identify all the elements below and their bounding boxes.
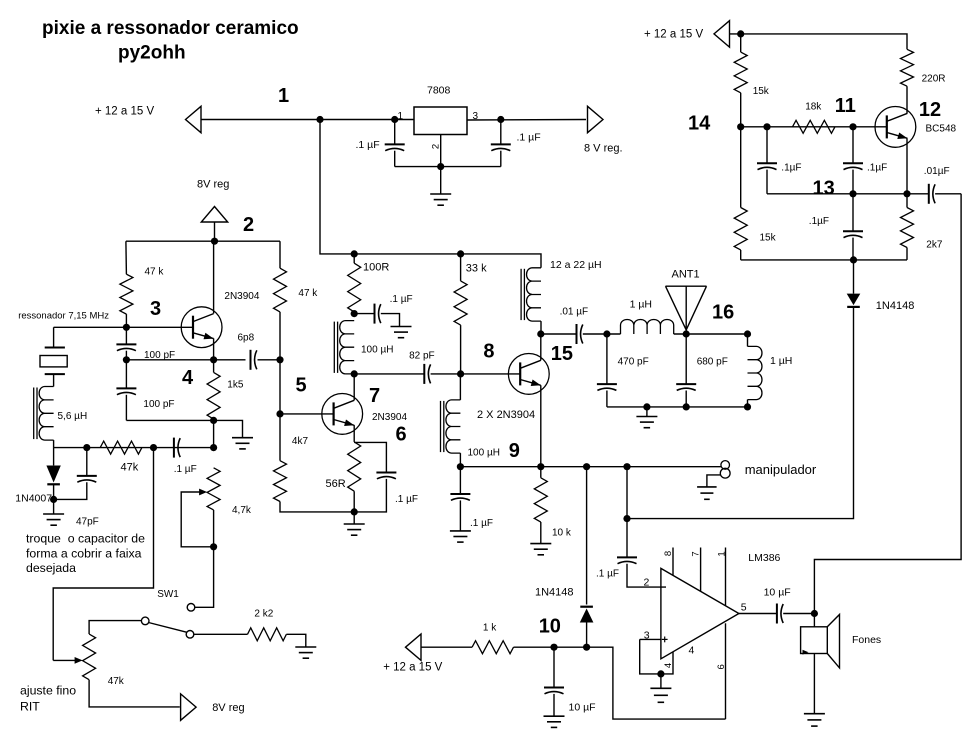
svg-text:1 k: 1 k	[483, 623, 497, 634]
junction 680pF gnd	[683, 403, 690, 410]
wire diode2 feed down	[586, 467, 588, 605]
svg-text:4: 4	[182, 367, 194, 389]
wire throw A to 4,7k	[195, 510, 214, 607]
junction node 14 / cap b	[849, 123, 856, 130]
svg-text:LM386: LM386	[748, 552, 780, 564]
ceramic resonator 7,15 MHz	[40, 348, 67, 375]
potentiometer 4,7k	[207, 468, 220, 510]
wire C-out top stem	[500, 120, 502, 145]
wire varactor node line	[54, 447, 214, 449]
junction node 13 / emitter	[903, 190, 910, 197]
svg-text:47 k: 47 k	[298, 288, 318, 299]
antenna ANT1	[666, 286, 707, 334]
wire osc signal line	[627, 307, 854, 519]
svg-text:100 µH: 100 µH	[468, 448, 500, 459]
svg-text:100 µH: 100 µH	[361, 345, 393, 356]
wire 12V to 1k	[421, 646, 472, 648]
svg-text:+ 12 a 15 V: + 12 a 15 V	[95, 106, 154, 118]
capacitor .1 uF (100R bypass)	[375, 304, 381, 324]
wire sidetone branch	[626, 467, 628, 519]
resistor 47 k (Q7 bias upper)	[274, 268, 287, 312]
svg-text:470 pF: 470 pF	[618, 357, 649, 368]
wire 4,7k wiper loop	[181, 492, 213, 547]
plus mark pin 3	[662, 638, 668, 640]
junction key / diode	[583, 463, 590, 470]
svg-text:BC548: BC548	[926, 124, 957, 135]
svg-text:1N4148: 1N4148	[535, 587, 574, 599]
ground (manipulador)	[697, 487, 717, 499]
capacitor 6p8	[251, 350, 257, 370]
wire Q3 collector up	[213, 241, 215, 313]
wire key bypass top stem	[459, 467, 461, 494]
svg-text:troque o capacitor de: troque o capacitor de	[26, 532, 145, 546]
wire osc2 bottom rail	[741, 259, 907, 261]
junction node 15	[537, 330, 544, 337]
capacitor .1 uF (audio in)	[617, 557, 637, 563]
wire 8V osc rail	[126, 240, 280, 242]
svg-text:ressonador 7,15 MHz: ressonador 7,15 MHz	[18, 311, 109, 322]
potentiometer 47k (RIT)	[83, 634, 96, 680]
wire C-in top stem	[394, 120, 396, 145]
wire shunt coil stubs	[747, 334, 749, 346]
diode 1N4007	[46, 466, 60, 485]
wire Q7 emitter down	[353, 425, 355, 442]
wire LM386 pin 7	[700, 548, 702, 592]
svg-text:5,6 µH: 5,6 µH	[58, 411, 88, 422]
op-amp U1 LM386 body	[661, 568, 739, 658]
wire speaker top stem	[813, 614, 815, 627]
capacitor .1uF (osc c)	[843, 231, 863, 237]
wire 15k-2 bottom stub	[740, 250, 742, 260]
svg-text:.1 µF: .1 µF	[517, 132, 541, 144]
wire cap-c top stem	[852, 194, 854, 232]
svg-text:8 V reg.: 8 V reg.	[584, 143, 623, 155]
svg-text:.1 µF: .1 µF	[174, 464, 197, 475]
wire 1N4007 anode stem	[53, 448, 55, 466]
svg-text:manipulador: manipulador	[745, 462, 817, 477]
transistor Q12 BC548	[875, 107, 916, 148]
wire Q12 emitter down	[906, 138, 908, 194]
svg-text:6p8: 6p8	[238, 333, 255, 344]
wire resonator top stem	[53, 327, 55, 347]
junction node 5 top	[276, 356, 283, 363]
wire 15k-2 top stub	[740, 127, 742, 208]
svg-text:7808: 7808	[427, 85, 451, 97]
svg-text:Fones: Fones	[852, 634, 881, 646]
wire 2k7 top stub	[906, 194, 908, 208]
svg-text:15k: 15k	[760, 233, 777, 244]
junction node 5 base	[276, 410, 283, 417]
svg-text:10 µF: 10 µF	[569, 702, 596, 714]
wire .01uF to filter	[583, 333, 621, 335]
wire 47pF bottom link	[54, 482, 87, 499]
wire 100pF-1 bottom stem	[125, 351, 127, 360]
svg-text:5: 5	[741, 602, 747, 614]
svg-text:2 k2: 2 k2	[254, 609, 273, 620]
wire 100pF-2 bottom stem	[125, 395, 127, 421]
wire bypass cap to ground	[381, 314, 400, 327]
wire 7808 ground stem	[440, 167, 442, 194]
junction node 1 (12V rail tap)	[316, 116, 323, 123]
svg-text:8V reg: 8V reg	[197, 179, 229, 191]
diode 1N4148 (osc)	[847, 294, 861, 307]
wire 12V osc rail	[729, 34, 907, 49]
svg-text:.01 µF: .01 µF	[560, 307, 589, 318]
wire 47k right top stub	[279, 241, 281, 268]
wire 10k top stub	[540, 467, 542, 478]
junction filter gnd mid	[643, 403, 650, 410]
capacitor .01uF (osc out)	[929, 184, 935, 204]
svg-text:12: 12	[919, 99, 941, 121]
wire keying line	[460, 466, 721, 468]
resistor 1 k	[472, 641, 513, 654]
svg-text:2: 2	[243, 214, 254, 236]
capacitor 10 uF (supply filter)	[544, 688, 564, 694]
junction key / sidetone	[623, 463, 630, 470]
supply flag 8V (osc)	[201, 207, 227, 223]
wire 470pF top stem	[606, 334, 608, 384]
inductor 5,6 uH	[34, 387, 54, 441]
svg-text:8: 8	[663, 551, 674, 556]
junction 10uF audio	[550, 644, 557, 651]
svg-text:1k5: 1k5	[227, 379, 244, 390]
svg-text:220R: 220R	[922, 74, 946, 85]
svg-text:1 µH: 1 µH	[630, 299, 652, 311]
capacitor 10 uF (audio out)	[777, 604, 783, 624]
wire 7808 ground rail	[395, 166, 501, 168]
svg-text:2: 2	[431, 144, 442, 149]
svg-text:4: 4	[689, 644, 695, 656]
wire LM386 pin 6	[725, 623, 727, 719]
wire bypass cap feed	[354, 313, 374, 315]
wire Q8 collector up	[540, 334, 542, 360]
svg-text:5: 5	[296, 375, 307, 397]
wire 2k2 to ground	[286, 634, 305, 647]
wire 6p8 to node 5	[258, 359, 281, 361]
wire PA base coil top stub	[459, 374, 461, 400]
wire node 13 line	[767, 193, 929, 195]
wire C-out bottom stem	[500, 151, 502, 167]
wire 7808 pin 3 output	[467, 119, 586, 122]
transistor Q3 2N3904	[181, 307, 222, 348]
resistor 2k7	[901, 208, 914, 248]
svg-text:1N4148: 1N4148	[876, 300, 915, 312]
wire Q7 ground stem	[353, 512, 355, 524]
wire resonator bottom stem	[53, 374, 55, 386]
wire filter ground rail	[607, 406, 748, 408]
wire .1uF audio top stem	[626, 519, 628, 558]
junction LM386 pin4 gnd	[657, 670, 664, 677]
inductor 100 uH (PA base)	[441, 400, 461, 453]
junction 47pF top	[83, 444, 90, 451]
svg-text:SW1: SW1	[157, 589, 179, 600]
svg-text:3: 3	[644, 629, 650, 641]
ground (100R bypass)	[391, 327, 412, 338]
junction osc2 rail / 15k	[737, 30, 744, 37]
capacitor 680 pF	[676, 384, 696, 390]
capacitor .01 uF (PA out)	[577, 324, 583, 344]
junction node 4 left	[123, 356, 130, 363]
transistor Q8 2x2N3904	[508, 354, 549, 395]
wire C-in bottom stem	[394, 151, 396, 167]
junction 1k5 bottom	[210, 417, 217, 424]
capacitor 100 pF (upper)	[116, 344, 136, 350]
wire osc rail to 47k left	[125, 241, 128, 274]
junction 7808 ground	[437, 163, 444, 170]
wire pot bottom to 8V flag	[89, 680, 180, 707]
wire 4k7 bottom	[280, 502, 354, 512]
ground (LM386)	[650, 688, 671, 702]
wire Q8 emitter down	[540, 385, 542, 466]
switch SW1 pole contact	[141, 617, 149, 625]
wire LM386 pin 1	[725, 548, 727, 606]
junction 7808 pin3 / C out	[497, 116, 504, 123]
wire 100pF-2 top stem	[125, 360, 127, 389]
svg-text:7: 7	[369, 385, 380, 407]
svg-text:11: 11	[835, 95, 856, 117]
ground (Q7)	[344, 524, 365, 535]
wire 15k-1 to node 14	[740, 93, 742, 127]
ground (osc emitter)	[232, 438, 253, 449]
svg-text:6: 6	[716, 664, 727, 669]
wire osc bias bottom	[213, 420, 215, 447]
svg-text:100 pF: 100 pF	[143, 399, 174, 410]
svg-text:+ 12 a 15 V: + 12 a 15 V	[383, 662, 442, 674]
svg-text:1N4007: 1N4007	[15, 493, 52, 505]
svg-text:8V reg: 8V reg	[212, 702, 244, 714]
wire 220R to Q12 collector	[906, 86, 908, 113]
junction RIT feed	[150, 444, 157, 451]
connector manipulador (jack)	[720, 461, 730, 479]
wire coil to bottom node	[53, 440, 55, 448]
wire LM386 pin 3	[640, 638, 662, 640]
wire 1k5 bottom node line	[126, 420, 242, 437]
wire 15k-1 top stub	[740, 34, 742, 52]
svg-text:.1 µF: .1 µF	[390, 294, 413, 305]
junction 1uH shunt top	[744, 330, 751, 337]
svg-text:2N3904: 2N3904	[224, 291, 259, 302]
resistor 47k (Q3 base upper)	[120, 274, 133, 314]
junction sidetone tee	[623, 515, 630, 522]
wire 47k to base node	[125, 314, 127, 327]
wire 680pF bottom stem	[685, 391, 687, 407]
wire 100R top stub	[353, 254, 355, 263]
wire Q3 emitter down	[213, 338, 215, 359]
svg-text:15: 15	[551, 343, 573, 365]
wire 7808 pin 2 down	[440, 135, 442, 167]
wire filter mid to ANT	[674, 333, 748, 335]
wire coil bottom to node 7	[353, 374, 355, 400]
svg-text:56R: 56R	[326, 478, 346, 490]
junction node 8 (PA base)	[457, 370, 464, 377]
svg-text:2 X 2N3904: 2 X 2N3904	[477, 409, 535, 421]
wire diode2 to audio node	[586, 623, 588, 648]
capacitor .1 uF (56R bypass)	[376, 473, 396, 479]
svg-text:47 k: 47 k	[145, 267, 165, 278]
junction PA rail / 100R	[351, 250, 358, 257]
wire emitter bypass top	[354, 442, 386, 472]
svg-text:.1µF: .1µF	[867, 163, 887, 174]
junction node 13 / cap c	[849, 190, 856, 197]
wire 680pF top stem	[685, 334, 687, 384]
svg-text:3: 3	[473, 111, 479, 122]
ground (key bypass)	[450, 531, 471, 542]
wire key bypass bottom stem	[459, 500, 461, 531]
ground (7808)	[430, 194, 451, 205]
wire node 7 to 82pF	[354, 373, 424, 375]
wire base node line	[54, 326, 194, 328]
svg-text:12 a 22 µH: 12 a 22 µH	[550, 259, 602, 271]
svg-text:.1 µF: .1 µF	[596, 569, 619, 580]
ground (1N4007)	[43, 514, 64, 525]
svg-text:desejada: desejada	[26, 561, 76, 575]
svg-text:33 k: 33 k	[466, 263, 487, 275]
ground (10uF supply)	[544, 716, 565, 727]
svg-text:RIT: RIT	[20, 700, 40, 714]
capacitor 470 pF	[597, 384, 617, 390]
wire PA base	[461, 373, 521, 375]
svg-text:47k: 47k	[108, 676, 125, 687]
svg-text:6: 6	[396, 424, 407, 446]
svg-text:+ 12 a 15 V: + 12 a 15 V	[644, 29, 703, 41]
wire pin3 ground loop	[640, 639, 673, 674]
wire node 5 vertical	[279, 312, 281, 414]
resistor 15k (upper)	[734, 52, 747, 93]
svg-text:2k7: 2k7	[926, 240, 943, 251]
junction 100R / bypass	[351, 310, 358, 317]
resistor 100R	[348, 263, 361, 312]
wire 2k7 bottom stub	[906, 248, 908, 260]
svg-text:10 k: 10 k	[552, 528, 572, 539]
wire emitter bypass bottom	[354, 479, 386, 512]
wire 1N4007 cathode stem	[53, 484, 55, 499]
wire speaker ground stem	[813, 654, 815, 714]
wire 100pF-1 top stem	[125, 327, 127, 344]
wire LM386 pin 8	[672, 548, 674, 576]
svg-text:.1 µF: .1 µF	[356, 139, 380, 151]
svg-text:10 µF: 10 µF	[764, 587, 791, 599]
inductor 100 uH (Q7 collector)	[334, 321, 354, 374]
wire cap-b top stem	[852, 127, 854, 164]
wire 470pF bottom stem	[606, 391, 608, 407]
wire cap-c bottom stem	[852, 238, 854, 260]
svg-text:9: 9	[509, 440, 520, 462]
svg-text:pixie a ressonador ceramico: pixie a ressonador ceramico	[42, 18, 299, 39]
switch SW1 throw B	[186, 631, 194, 639]
junction key / emitter	[537, 463, 544, 470]
wire .1uF to pin2	[627, 564, 666, 587]
junction 7808 pin1 / C in	[391, 116, 398, 123]
IC 7808 regulator body	[414, 107, 467, 135]
ground (10k)	[530, 544, 551, 555]
svg-text:16: 16	[712, 302, 734, 324]
wire 12V down to PA rail	[320, 120, 541, 268]
wire sidetone to speaker	[814, 194, 961, 614]
svg-text:7: 7	[690, 551, 701, 556]
svg-text:1: 1	[716, 551, 727, 556]
wiper arrow (47k pot)	[53, 657, 82, 664]
capacitor .1uF (osc a)	[757, 163, 777, 169]
input flag +12V (bottom)	[406, 634, 422, 660]
wire 33k bottom stub	[460, 325, 462, 374]
svg-text:forma a cobrir a faixa: forma a cobrir a faixa	[26, 547, 142, 561]
wire 10uF to speaker node	[783, 613, 814, 615]
svg-text:100R: 100R	[363, 262, 389, 274]
wire node 14 line	[741, 126, 887, 128]
wire LM386 pin 5 out	[739, 613, 777, 615]
wire filter ground stem	[646, 407, 648, 417]
svg-text:10: 10	[539, 616, 561, 638]
svg-text:.01µF: .01µF	[924, 166, 950, 177]
ground (speaker)	[804, 714, 825, 726]
svg-text:15k: 15k	[753, 86, 770, 97]
svg-text:4,7k: 4,7k	[232, 505, 252, 516]
wire 10uF-2 bottom stem	[553, 694, 555, 716]
junction Q7 ground node	[351, 508, 358, 515]
inductor 1 uH (filter series)	[621, 320, 674, 334]
svg-text:ajuste fino: ajuste fino	[20, 684, 76, 698]
wire LM386 gnd stem	[660, 674, 662, 688]
junction PA rail / 33k	[457, 250, 464, 257]
resistor 1k5	[207, 372, 220, 419]
svg-text:1 µH: 1 µH	[770, 355, 792, 367]
svg-text:14: 14	[688, 113, 711, 135]
diode 1N4148 (detector)	[580, 607, 594, 623]
wire RIT feed down	[53, 448, 153, 661]
svg-text:1: 1	[278, 85, 289, 107]
switch SW1 throw A	[187, 604, 195, 612]
wire 100R bottom stub	[353, 312, 355, 314]
wire PA base coil bottom stub	[459, 453, 461, 467]
resistor 2 k2	[248, 628, 287, 641]
junction node 14 left	[737, 123, 744, 130]
capacitor .1 uF (key bypass)	[450, 494, 470, 500]
ground (2k2)	[295, 647, 316, 658]
wire manipulador ground hook	[707, 475, 720, 487]
switch SW1 blade	[149, 623, 187, 633]
junction filter input	[603, 330, 610, 337]
junction speaker node	[811, 610, 818, 617]
svg-text:2N3904: 2N3904	[372, 412, 407, 423]
resistor 18k	[793, 120, 835, 133]
input flag +12V (top right)	[714, 21, 730, 47]
speaker Fones	[801, 615, 840, 668]
inductor 12 a 22 uH	[521, 268, 541, 321]
junction diode2 bottom	[583, 644, 590, 651]
wire cap-b bottom stem	[852, 170, 854, 194]
junction 4,7k bottom	[210, 543, 217, 550]
resistor 4k7	[274, 461, 287, 502]
wire cap-a top stem	[766, 127, 768, 164]
svg-text:ANT1: ANT1	[672, 269, 700, 281]
junction node 14 / cap a	[763, 123, 770, 130]
wire node 4 line	[126, 359, 245, 361]
junction node 3 (Q3 base)	[123, 324, 130, 331]
svg-text:4: 4	[663, 663, 674, 668]
input flag +12V (top left)	[186, 106, 202, 132]
svg-text:.1 µF: .1 µF	[470, 518, 493, 529]
wire diode ground stem	[53, 499, 55, 514]
wire 8V flag stem	[214, 222, 216, 241]
junction osc2 bottom / diode	[850, 256, 857, 263]
wire diode1 anode stem	[853, 260, 855, 294]
svg-text:.1µF: .1µF	[781, 163, 801, 174]
wire 12V input to 7808 pin 1	[201, 119, 414, 121]
svg-text:py2ohh: py2ohh	[118, 43, 186, 64]
resistor 10 k	[534, 478, 547, 522]
wire .01uF to sidetone line	[935, 193, 961, 195]
resistor 15k (lower)	[734, 208, 747, 250]
